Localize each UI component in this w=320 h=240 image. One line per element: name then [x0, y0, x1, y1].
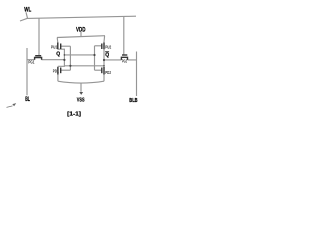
- svg-text:PU1: PU1: [51, 44, 58, 49]
- svg-text:BLB: BLB: [129, 98, 137, 104]
- svg-text:PU2: PU2: [105, 45, 111, 50]
- svg-text:PG1: PG1: [28, 59, 34, 64]
- svg-text:PG2: PG2: [122, 59, 127, 64]
- svg-text:[1-1]: [1-1]: [67, 111, 81, 117]
- svg-text:BL: BL: [25, 96, 30, 103]
- svg-text:VSS: VSS: [77, 97, 85, 103]
- svg-text:VDD: VDD: [76, 28, 86, 34]
- svg-text:PD2: PD2: [105, 70, 111, 75]
- svg-text:WL: WL: [24, 8, 31, 14]
- svg-text:Q: Q: [56, 51, 60, 57]
- svg-text:Q: Q: [105, 52, 109, 58]
- svg-text:PD1: PD1: [53, 68, 59, 73]
